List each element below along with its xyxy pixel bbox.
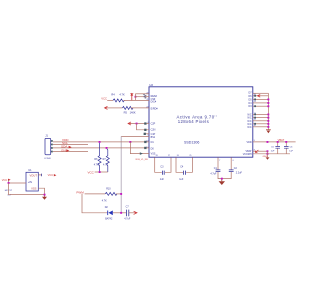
wire C7 to output arrow <box>129 212 134 214</box>
svg-text:PWM: PWM <box>76 191 84 195</box>
svg-text:25: 25 <box>189 155 191 157</box>
pin end squares right upper <box>254 95 256 107</box>
node junction bus bottom <box>120 212 122 214</box>
svg-text:4.7uF: 4.7uF <box>210 173 217 176</box>
net arrow diagonal glyph <box>255 150 258 152</box>
net glyph arrow VCC in <box>8 179 11 181</box>
svg-text:VCC: VCC <box>88 170 95 174</box>
svg-text:SSD1306: SSD1306 <box>184 141 199 145</box>
junction dots right bus lower <box>267 114 269 128</box>
capacitor C7 <box>127 210 129 217</box>
wire VBAT pin row <box>253 150 268 152</box>
resistor small vertical near pin edge <box>144 94 146 99</box>
wire into pin row y93.8 <box>135 93 149 95</box>
capacitor C1 from pin 7 <box>218 157 222 178</box>
svg-text:2.2uF: 2.2uF <box>236 171 243 174</box>
wire VCC to +IN <box>9 180 26 183</box>
wire VDD row right <box>253 141 296 143</box>
wire R5 to U2 pin <box>131 107 149 109</box>
svg-text:C4: C4 <box>180 166 184 169</box>
svg-text:BS1: BS1 <box>151 136 156 139</box>
wire right row NC3 <box>253 120 269 122</box>
pin end square D1 <box>144 141 146 143</box>
node junction pullup bottom <box>99 171 101 173</box>
node junction pullup left top <box>99 141 101 143</box>
ground symbol right bus <box>266 129 271 131</box>
svg-text:GND: GND <box>263 156 268 158</box>
wire PWM left leg down <box>82 194 108 213</box>
wire right row NC1 <box>253 113 269 115</box>
capacitor C2 from pin 6 <box>222 157 231 178</box>
wire right row NC5 <box>253 126 269 128</box>
node junction BS row <box>136 123 138 125</box>
svg-text:26: 26 <box>177 155 179 157</box>
svg-text:7: 7 <box>219 160 220 162</box>
node junction R10 bus <box>120 193 122 195</box>
wire VCC down to ground rail <box>9 183 45 195</box>
junction dots right bus upper <box>267 99 269 108</box>
ground symbol bottom caps <box>221 180 223 182</box>
capacitor C5 <box>277 143 279 154</box>
wire right top jog <box>253 92 269 94</box>
svg-text:VDD: VDD <box>247 141 252 144</box>
wire into pin row y96.7 <box>135 96 149 98</box>
net glyph arrow GND <box>66 149 69 152</box>
wire bus top into pin <box>121 135 149 137</box>
svg-text:4.7K: 4.7K <box>119 92 125 96</box>
wire right row NC4 <box>253 123 269 125</box>
wire VCC to R4 <box>107 99 113 101</box>
wire VSS row into pin <box>130 142 149 154</box>
svg-text:R5: R5 <box>124 111 128 115</box>
node junction rail end <box>44 194 46 196</box>
wire long vertical net <box>120 136 122 212</box>
node junction at split <box>135 96 137 98</box>
svg-text:R6: R6 <box>94 158 98 161</box>
svg-text:D/C#: D/C# <box>151 101 157 104</box>
svg-text:140K: 140K <box>130 111 136 115</box>
net arrow left (row 2) <box>105 106 108 109</box>
wire right bus vertical <box>267 93 269 129</box>
node junction caps common <box>221 178 223 180</box>
svg-text:VSS: VSS <box>31 187 37 191</box>
op-amp U2 display module body <box>149 87 253 157</box>
svg-text:VOUT: VOUT <box>30 173 38 177</box>
diode D2 BAT42 <box>108 211 112 216</box>
junction dots VDD row <box>267 141 288 143</box>
wire R10 to bus junction <box>116 193 121 195</box>
wire U1 VSS to rail <box>38 188 44 194</box>
node junction VCC input <box>8 182 10 184</box>
pin end square BS1 <box>144 122 146 124</box>
pin end square D0 <box>144 147 146 149</box>
wire U1 VOUT out <box>38 174 42 176</box>
svg-text:128x64 Pixels: 128x64 Pixels <box>178 119 209 124</box>
net arrow left (BS0 row) <box>128 122 131 125</box>
junction dots bottom right cluster <box>267 150 269 154</box>
capacitor C3 loop (bottom left) <box>155 157 171 172</box>
power flag arrow up on node <box>131 95 133 100</box>
svg-text:R4: R4 <box>111 92 115 96</box>
wire right row D3 <box>253 105 269 107</box>
svg-text:VCC: VCC <box>48 173 54 177</box>
pin tick VOUT <box>41 174 43 177</box>
wire D2 to junction <box>113 212 126 214</box>
svg-text:R10: R10 <box>106 188 111 191</box>
wire arrow to junction <box>131 123 149 125</box>
U2 left-edge pin name labels <box>151 95 159 156</box>
svg-text:VCOMH: VCOMH <box>243 153 252 156</box>
connector J1 body <box>45 138 51 154</box>
capacitor C4 loop <box>176 157 192 172</box>
svg-text:VCC: VCC <box>2 178 8 182</box>
svg-text:C7: C7 <box>126 206 130 209</box>
svg-text:4.7uF: 4.7uF <box>124 217 131 220</box>
svg-text:R7: R7 <box>103 158 107 161</box>
wire join and drop to ground <box>267 151 269 157</box>
svg-text:4.7K: 4.7K <box>102 199 107 202</box>
wire SDA row to U2 <box>53 147 149 149</box>
U2 right pin numbers <box>254 94 256 151</box>
svg-text:1uF: 1uF <box>179 178 184 181</box>
wire arrow to R5 <box>108 107 123 109</box>
pin end squares right lower <box>254 114 256 125</box>
wire pullup bottoms join <box>95 171 108 173</box>
resistor R6 pullup vertical <box>98 143 101 172</box>
svg-text:6: 6 <box>233 160 234 162</box>
node junction pullup right top <box>106 147 108 149</box>
svg-text:CONN: CONN <box>44 158 51 160</box>
U2 left pin numbers <box>146 92 148 149</box>
regulator U1 body <box>26 172 38 191</box>
wire VDD row from connector to U2 <box>53 141 149 143</box>
wire right row D5 <box>253 98 269 100</box>
resistor R7 pullup vertical <box>106 149 109 172</box>
wire junction down to second pin <box>137 124 150 130</box>
wire junction vertical <box>134 94 136 101</box>
svg-text:BAT42: BAT42 <box>105 217 113 220</box>
wire GND short row <box>53 151 88 153</box>
svg-text:VBAT: VBAT <box>278 138 285 142</box>
svg-text:D2: D2 <box>105 206 109 209</box>
U2 right-edge pin name labels <box>243 91 253 155</box>
bus entry triangle on VSS row <box>140 152 143 155</box>
ground symbol below U1 <box>44 196 46 197</box>
node junction mid row <box>129 141 131 143</box>
svg-text:+IN: +IN <box>28 180 32 184</box>
svg-text:C5: C5 <box>271 147 275 149</box>
wire VCOMH row <box>253 153 290 155</box>
svg-text:4.7K: 4.7K <box>94 164 99 167</box>
svg-text:VDB_VL_FB: VDB_VL_FB <box>135 159 148 161</box>
svg-text:C3: C3 <box>160 166 164 169</box>
ground symbol small right <box>266 157 270 159</box>
svg-text:VCC: VCC <box>101 97 107 101</box>
wire PWM to R10 <box>85 193 106 195</box>
net glyph arrow VOUT <box>54 174 57 176</box>
svg-text:1uF: 1uF <box>160 178 165 181</box>
pin end square BS2 <box>144 129 146 131</box>
wire right row NC2 <box>253 117 269 119</box>
svg-text:U1: U1 <box>28 168 32 172</box>
wire SCL short row <box>53 143 88 145</box>
net glyph arrow SDA <box>69 146 72 149</box>
resistor R4 <box>113 99 124 102</box>
svg-text:N/C: N/C <box>247 126 251 129</box>
svg-text:27: 27 <box>168 155 170 157</box>
pin stub unconnected <box>145 133 149 135</box>
svg-text:E/RD#: E/RD# <box>151 107 159 110</box>
svg-text:U2: U2 <box>149 83 153 87</box>
svg-text:C6: C6 <box>290 147 294 149</box>
svg-text:C2: C2 <box>234 167 238 170</box>
U2 bottom pin numbers <box>156 155 234 162</box>
net arrow left on D6 row <box>257 94 260 97</box>
svg-text:C2N: C2N <box>151 129 156 132</box>
svg-text:C1: C1 <box>214 167 218 170</box>
connector J1 pin pads <box>51 140 53 152</box>
wire R4 to U2 pin <box>123 99 149 101</box>
svg-text:1uF: 1uF <box>289 151 293 153</box>
wire right row D4 <box>253 102 269 104</box>
resistor R10 <box>105 192 117 195</box>
svg-text:J1: J1 <box>45 134 48 138</box>
wire right row D6 <box>253 95 269 97</box>
svg-text:28: 28 <box>156 155 158 157</box>
capacitor C6 <box>285 143 287 154</box>
svg-text:C2P: C2P <box>151 123 156 126</box>
svg-text:4.7K: 4.7K <box>103 164 108 167</box>
svg-text:1uF: 1uF <box>271 151 275 153</box>
resistor R5 <box>122 106 133 109</box>
net arrow right output <box>134 211 137 214</box>
